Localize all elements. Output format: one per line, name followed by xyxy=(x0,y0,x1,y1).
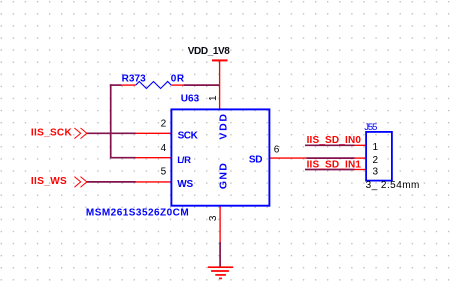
wire SD to J55 pin2 xyxy=(306,157,354,159)
svg-text:IIS_SD_IN1: IIS_SD_IN1 xyxy=(307,159,362,170)
svg-text:0R: 0R xyxy=(171,73,185,84)
svg-text:3: 3 xyxy=(208,215,219,221)
wire IIS_WS horizontal xyxy=(87,181,136,183)
svg-text:SD: SD xyxy=(249,154,263,165)
resistor R373 zigzag xyxy=(136,82,172,89)
svg-text:1: 1 xyxy=(373,142,379,153)
pin 6 SD stub xyxy=(269,157,306,159)
port IIS_SCK xyxy=(31,128,87,139)
pin 3 GND stub xyxy=(219,206,221,242)
IC U63 body (MSM261S3526Z0CM microphone) xyxy=(171,109,269,205)
svg-text:2: 2 xyxy=(373,155,379,166)
svg-text:VDD_1V8: VDD_1V8 xyxy=(188,46,230,57)
J55 pin3 stub xyxy=(355,169,367,171)
svg-text:VDD: VDD xyxy=(217,114,229,140)
wire vertical branch R373 to L/R xyxy=(110,84,112,158)
svg-text:1: 1 xyxy=(208,95,219,101)
wire GND pin to ground symbol xyxy=(219,242,221,267)
pin 5 WS stub xyxy=(136,181,172,183)
J55 pin1 stub xyxy=(355,144,367,146)
svg-text:3: 3 xyxy=(373,167,379,178)
svg-text:GND: GND xyxy=(217,163,229,189)
wire L/R horizontal xyxy=(111,157,136,159)
svg-text:3_ 2.54mm: 3_ 2.54mm xyxy=(366,180,420,191)
svg-text:L/R: L/R xyxy=(177,155,191,166)
power VDD_1V8 symbol bar xyxy=(212,59,228,61)
svg-text:WS: WS xyxy=(177,179,193,190)
pin 2 SCK stub xyxy=(136,132,172,134)
port IIS_WS xyxy=(31,176,87,187)
svg-text:4: 4 xyxy=(161,143,167,154)
pin 1 VDD stub xyxy=(219,60,221,109)
svg-text:R373: R373 xyxy=(122,73,147,84)
svg-text:SCK: SCK xyxy=(178,130,199,141)
wire IIS_SCK horizontal xyxy=(87,132,136,134)
svg-text:2: 2 xyxy=(161,118,167,129)
svg-text:IIS_WS: IIS_WS xyxy=(31,176,67,187)
wire IIS_SD_IN1 xyxy=(305,169,355,171)
svg-text:6: 6 xyxy=(274,144,280,155)
ground xyxy=(208,267,233,278)
pin 4 L/R stub xyxy=(136,157,172,159)
svg-text:U63: U63 xyxy=(181,93,200,104)
wire resistor left xyxy=(110,84,122,86)
resistor R373 left terminal xyxy=(122,84,136,86)
resistor R373 right terminal xyxy=(171,84,183,86)
svg-text:IIS_SCK: IIS_SCK xyxy=(31,128,73,139)
svg-text:J55: J55 xyxy=(364,122,377,133)
wire IIS_SD_IN0 xyxy=(305,144,355,146)
J55 pin2 stub xyxy=(355,157,367,159)
connector J55 body xyxy=(366,132,392,181)
svg-text:IIS_SD_IN0: IIS_SD_IN0 xyxy=(307,135,362,146)
svg-text:MSM261S3526Z0CM: MSM261S3526Z0CM xyxy=(86,208,189,219)
wire resistor right to VDD xyxy=(183,84,219,86)
svg-text:5: 5 xyxy=(161,166,167,177)
